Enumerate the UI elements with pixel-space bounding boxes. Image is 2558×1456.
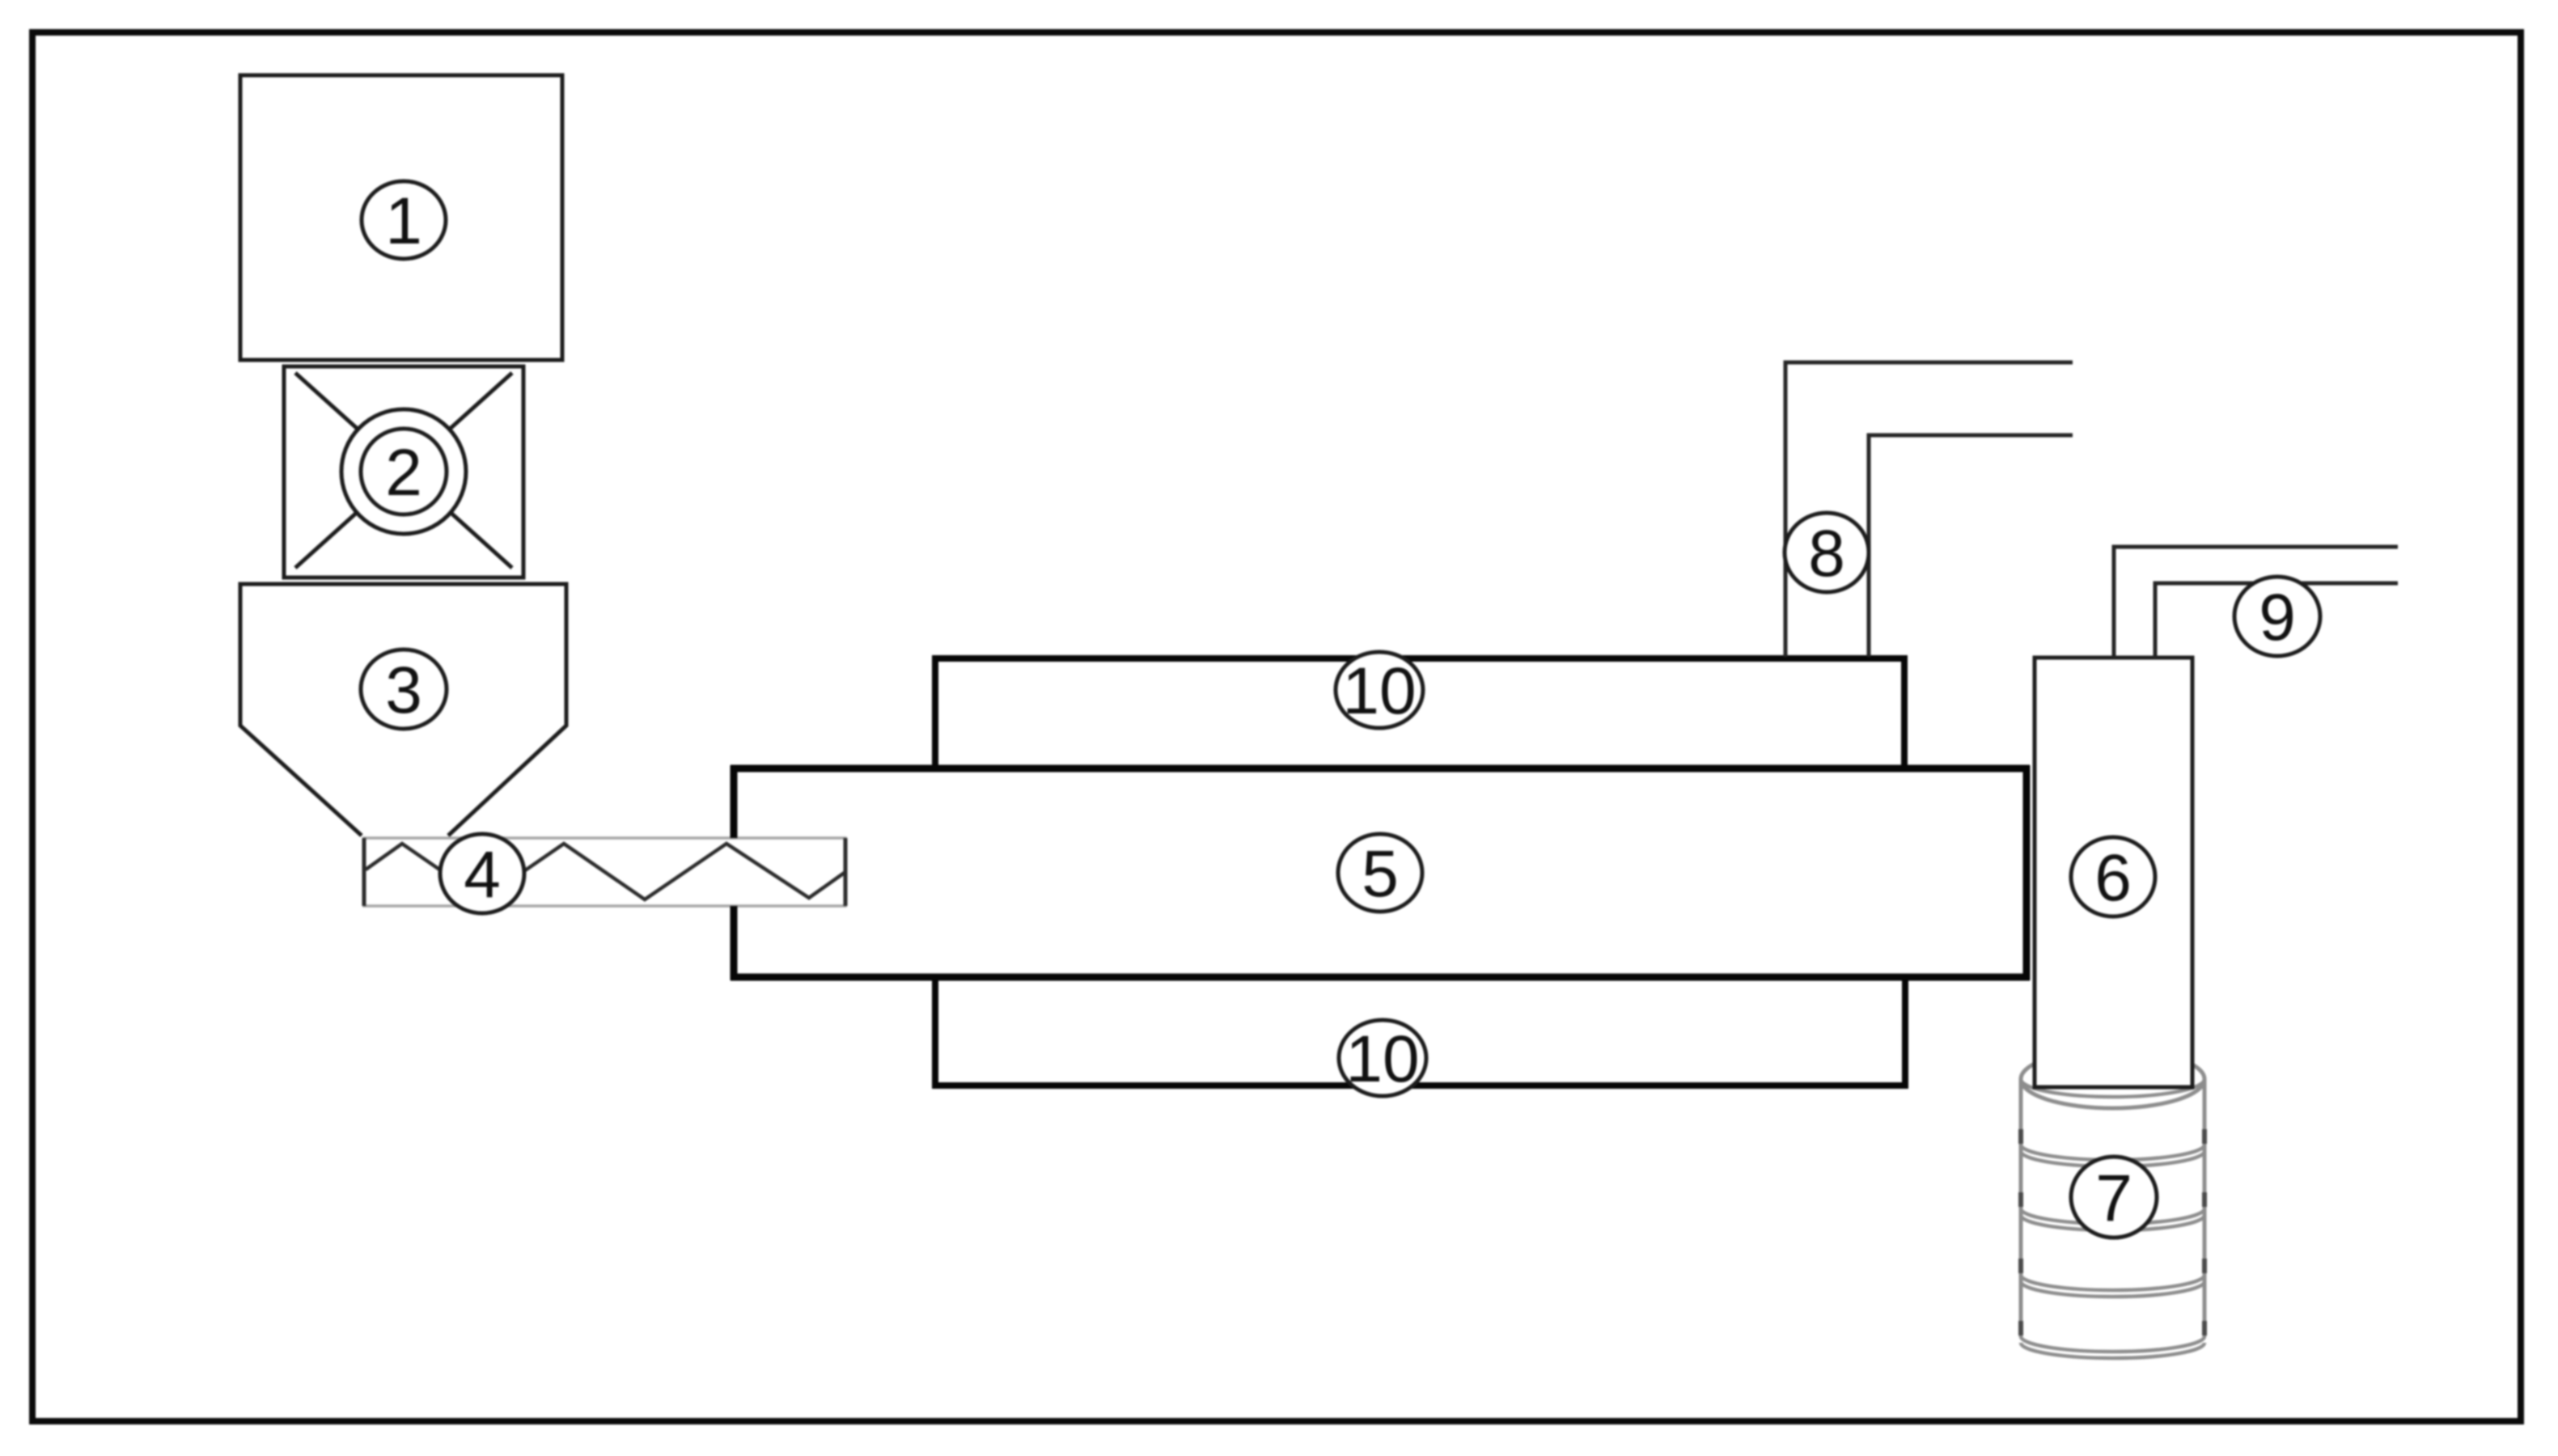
- label circle 5: [1338, 834, 1422, 912]
- feed bin 1 (box): [240, 75, 562, 360]
- svg-text:7: 7: [2095, 1162, 2132, 1235]
- screw conveyor 4 (tube): [364, 838, 845, 906]
- label circle 4: [440, 834, 524, 913]
- svg-text:1: 1: [385, 184, 422, 258]
- svg-text:8: 8: [1808, 517, 1845, 590]
- rotary valve 2 (box with X): [284, 366, 523, 578]
- svg-text:5: 5: [1362, 837, 1399, 911]
- discharge duct 6 (vertical vessel): [2035, 658, 2192, 1087]
- label circle 7: [2071, 1157, 2157, 1238]
- reactor tube 5 (kiln body): [731, 765, 2030, 980]
- svg-text:3: 3: [385, 654, 422, 727]
- svg-text:9: 9: [2259, 581, 2296, 654]
- exhaust pipe 8 (elbow up from top heater): [1785, 362, 2073, 657]
- svg-text:2: 2: [385, 436, 422, 510]
- screw conveyor 4 (auger zigzag): [366, 844, 845, 899]
- label circle 1: [362, 181, 446, 259]
- label circle 6: [2071, 837, 2155, 916]
- hopper 3 (funnel): [240, 584, 566, 836]
- label circle 10 top: [1336, 652, 1423, 728]
- label circle 2 (double circle): [341, 409, 466, 534]
- label circle 3: [361, 650, 447, 729]
- outlet pipe 9 (elbow up from duct 6): [2114, 547, 2398, 658]
- label circle 8: [1785, 513, 1869, 592]
- heater 10 (top): [935, 658, 1904, 768]
- label circle 10 bottom: [1339, 1020, 1426, 1096]
- svg-text:10: 10: [1342, 654, 1416, 728]
- heater 10 (bottom): [935, 977, 1905, 1086]
- collection drum 7: [2021, 1050, 2204, 1358]
- svg-text:6: 6: [2094, 841, 2132, 915]
- label circle 9: [2234, 577, 2320, 656]
- svg-text:10: 10: [1345, 1022, 1419, 1096]
- svg-text:4: 4: [464, 838, 501, 912]
